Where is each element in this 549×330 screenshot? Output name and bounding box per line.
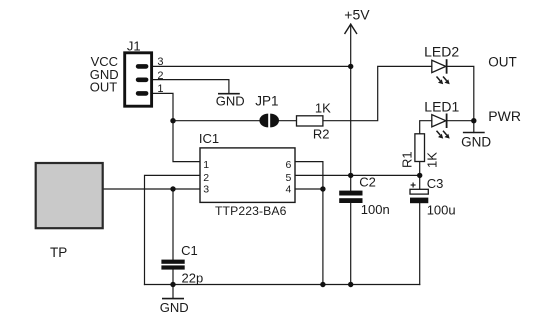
svg-text:R1: R1 — [400, 151, 415, 168]
junction node ground rail at C2 — [348, 282, 353, 287]
capacitor C1 — [161, 260, 184, 270]
wire TP to IC pin3 — [104, 188, 200, 190]
svg-text:J1: J1 — [127, 38, 141, 53]
wire C1 bottom to rail — [172, 270, 174, 285]
junction node +5V / VCC row — [348, 64, 353, 69]
svg-text:4: 4 — [286, 184, 292, 196]
wire JP1 to R2 — [277, 120, 296, 122]
svg-text:6: 6 — [286, 159, 292, 171]
svg-text:C1: C1 — [181, 243, 198, 258]
svg-text:+5V: +5V — [344, 7, 370, 23]
wire IC pin5 row to C3 node — [295, 174, 420, 176]
svg-text:1K: 1K — [425, 152, 440, 168]
svg-text:OUT: OUT — [488, 55, 517, 70]
touch pad TP — [36, 163, 103, 228]
svg-text:3: 3 — [203, 184, 209, 196]
svg-text:LED1: LED1 — [424, 98, 459, 114]
svg-text:3: 3 — [157, 56, 163, 68]
wire C2 bottom to rail — [350, 203, 352, 285]
svg-text:1: 1 — [157, 83, 163, 95]
resistor R2 — [297, 116, 323, 126]
svg-text:IC1: IC1 — [199, 131, 219, 146]
wire IC pin6 to pin4 vertical down to ground rail — [295, 162, 323, 285]
resistor R1 — [415, 134, 425, 162]
wire J1 pin1 down to IC pin1 — [153, 93, 200, 161]
wire C3 bottom to rail — [419, 203, 421, 284]
LED2 — [432, 59, 450, 84]
svg-text:C2: C2 — [359, 175, 376, 190]
svg-text:100n: 100n — [361, 202, 390, 217]
wire R1 bottom to rail node — [419, 162, 421, 190]
ground symbol at PWR — [463, 132, 485, 134]
svg-text:5: 5 — [286, 172, 292, 184]
svg-text:GND: GND — [216, 94, 245, 109]
svg-text:1: 1 — [203, 159, 209, 171]
wire IC pin2 to ground rail — [145, 175, 201, 284]
jumper JP1 — [259, 114, 279, 128]
wire C1 vertical top — [172, 189, 174, 260]
svg-text:JP1: JP1 — [255, 94, 278, 109]
svg-text:22p: 22p — [182, 270, 204, 285]
ground symbol bottom rail — [162, 285, 184, 299]
power +5V symbol — [345, 24, 357, 66]
wire LED1 anode to R1 — [420, 121, 432, 134]
svg-text:2: 2 — [157, 70, 163, 82]
wire +5V vertical to C2 — [350, 66, 352, 190]
junction node R1/C3 — [417, 173, 422, 178]
capacitor C2 — [339, 191, 362, 203]
svg-text:GND: GND — [461, 135, 491, 150]
junction node ground rail at pin4 drop — [320, 282, 325, 287]
capacitor C3 electrolytic — [410, 183, 428, 204]
wire VCC row J1 pin3 to +5V node — [153, 65, 351, 67]
wire ground rail — [145, 284, 420, 286]
svg-text:2: 2 — [203, 172, 209, 184]
junction node PWR — [471, 118, 476, 123]
wire JP1 row from node to JP1 — [173, 120, 259, 122]
junction node ground rail at C1 — [170, 282, 175, 287]
svg-text:TP: TP — [50, 245, 67, 260]
LED1 — [432, 114, 450, 139]
connector J1 — [125, 53, 152, 106]
svg-text:LED2: LED2 — [424, 44, 459, 60]
wire IC pin4 stub — [295, 188, 323, 190]
IC IC1 TTP223-BA6 — [200, 148, 295, 203]
wire R2 to LED2 anode — [323, 66, 432, 120]
svg-text:1K: 1K — [315, 100, 331, 115]
junction node +5V rail at IC pin5 row — [348, 173, 353, 178]
svg-text:100u: 100u — [427, 203, 456, 218]
svg-text:TTP223-BA6: TTP223-BA6 — [215, 204, 287, 218]
ground symbol near J1 pin2 — [218, 93, 240, 95]
junction node TP / IC pin3 / C1 — [170, 186, 175, 191]
junction node IC pin6/pin4 — [320, 186, 325, 191]
svg-text:C3: C3 — [427, 176, 444, 191]
svg-text:GND: GND — [160, 300, 189, 315]
junction node OUT net at JP1 row — [170, 118, 175, 123]
svg-text:PWR: PWR — [488, 108, 521, 124]
wire LED1 cathode to PWR node — [447, 120, 474, 122]
wire J1 pin2 to GND — [153, 80, 229, 94]
svg-text:R2: R2 — [313, 127, 330, 142]
svg-text:OUT: OUT — [90, 80, 118, 95]
wire LED2 cathode to OUT corner down to PWR node — [447, 66, 474, 132]
